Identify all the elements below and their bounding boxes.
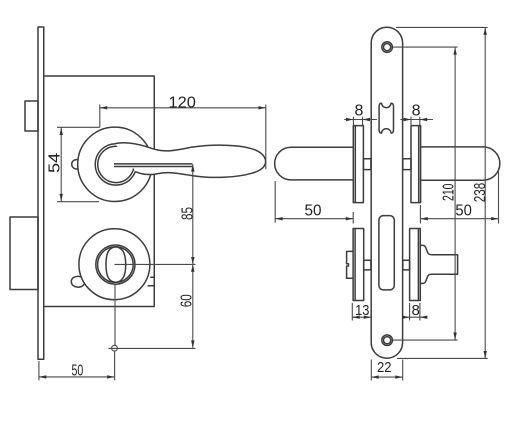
svg-text:210: 210 [441,183,458,201]
svg-text:50: 50 [455,203,472,220]
svg-text:120: 120 [169,95,196,112]
svg-text:8: 8 [355,102,364,119]
svg-text:238: 238 [472,183,489,203]
svg-text:85: 85 [179,207,196,220]
svg-text:13: 13 [355,302,369,319]
svg-text:50: 50 [305,203,322,220]
svg-text:8: 8 [412,302,420,319]
svg-text:60: 60 [178,294,195,307]
svg-text:8: 8 [412,102,421,119]
svg-text:22: 22 [377,359,392,376]
svg-text:54: 54 [47,153,64,173]
svg-text:50: 50 [72,363,84,380]
